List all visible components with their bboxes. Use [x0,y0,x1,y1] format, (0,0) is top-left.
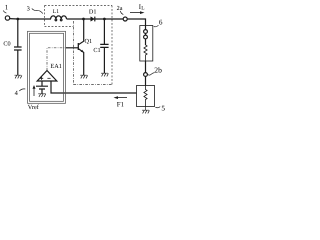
ground under box5 [142,107,149,114]
dashed boundary 3 top [45,5,113,7]
diode D1 [91,17,95,21]
svg-text:EA1: EA1 [50,63,62,70]
svg-text:5: 5 [161,104,165,112]
leader for label 3 [32,9,43,14]
resistor R sense [144,86,147,107]
leader for label 5 [155,107,160,108]
wire D1 to output corner [95,19,146,26]
resistor in load box [144,45,147,61]
node C1 tap junction [103,18,106,21]
wire top rail left [10,18,51,20]
wire L1 to D1 [67,18,91,20]
dashed boundary 3 inner vertical [73,21,75,85]
solid base wire [66,47,78,49]
node Q1 collector tap [82,18,85,21]
leader for label 6 [154,25,159,27]
leader for label 4 [19,89,25,91]
svg-text:L: L [141,6,144,12]
control IC box 4 inner [30,33,64,101]
dash-dot control line EA1 to Q1 base [47,48,66,71]
dashed boundary 3 step [45,26,74,28]
control IC box 4 outer [28,31,66,103]
node C0 tap junction [16,18,19,21]
svg-text:6: 6 [159,19,163,27]
ground under Vref [38,94,46,97]
arrow beside Vref [33,88,35,97]
svg-text:2b: 2b [154,65,162,74]
current sense box 5 [137,86,155,107]
leader for label 2b [148,73,155,76]
capacitor C1 [100,19,108,73]
output terminal 2a circle [123,17,127,21]
leader for label 2a [120,11,123,15]
emitter arrow [81,50,84,53]
ground under C1 [101,73,108,76]
LED load box 6 [140,26,153,62]
plus input mark [40,77,43,80]
terminal 2b circle [144,73,148,77]
svg-text:Q1: Q1 [85,38,93,45]
LED lamp 1 [145,26,147,30]
inductor L1 [51,16,67,21]
input terminal circle [5,16,9,20]
capacitor C0 [14,19,22,75]
transistor Q1 [77,43,79,50]
dashed boundary 3 left [44,6,46,27]
reference source Vref battery [36,81,48,94]
svg-text:C0: C0 [3,41,10,48]
wire 2b to box5 [145,76,147,85]
minus input mark [47,77,50,79]
svg-text:F1: F1 [117,101,124,108]
svg-text:Vref: Vref [28,104,40,111]
svg-text:1: 1 [5,3,9,11]
op-amp EA1 triangle [37,71,57,82]
svg-text:2a: 2a [117,5,123,12]
leader for label 1 [3,11,6,14]
feedback wire F1 [51,81,137,93]
dashed boundary 3 right [111,6,113,85]
current arrow IL [130,12,143,14]
ground under C0 [15,75,22,78]
svg-text:3: 3 [27,6,30,13]
ground under Q1 emitter [80,75,87,78]
dashed boundary 3 bottom [74,84,113,86]
arrow F1 [116,97,127,99]
LED lamp 2 [144,35,148,39]
svg-text:C1: C1 [93,47,100,54]
svg-text:D1: D1 [89,9,97,16]
svg-text:L1: L1 [53,9,59,15]
wire box6 to 2b [145,61,147,73]
